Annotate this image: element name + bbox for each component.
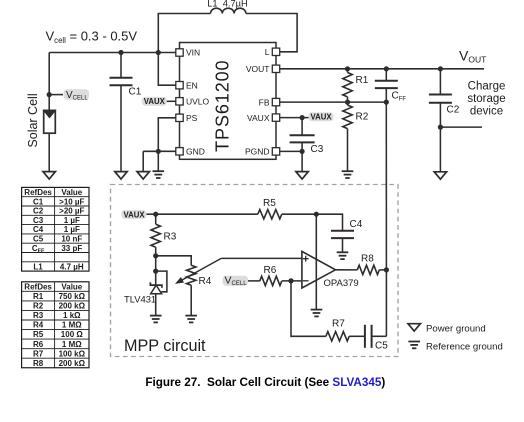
node EN tie junction: [156, 50, 161, 55]
capacitor C1: [110, 78, 133, 85]
legend Power ground text: [426, 324, 486, 335]
label R8: [361, 254, 374, 265]
wire TLV431 top: [155, 256, 157, 285]
svg-text:C1: C1: [33, 197, 44, 206]
MPP circuit dashed box: [111, 185, 399, 357]
svg-text:VAUX: VAUX: [310, 113, 332, 122]
label CFF: [392, 91, 407, 103]
label C5: [375, 341, 388, 352]
node PS-GND junction: [156, 149, 161, 154]
legend Reference ground text: [426, 342, 503, 353]
solar cell SC1 symbol: [44, 110, 56, 133]
svg-text:R1: R1: [33, 292, 44, 301]
svg-text:device: device: [470, 105, 503, 117]
svg-text:R6: R6: [264, 265, 277, 276]
label VAUX flag (pin): [309, 112, 334, 121]
TLV431 ref loop: [156, 271, 167, 292]
label Charge storage device: [467, 80, 505, 117]
svg-text:33 pF: 33 pF: [61, 244, 82, 253]
reference ground (C4): [337, 252, 349, 259]
capacitor C3: [290, 135, 315, 142]
wire CFF bottom stub: [385, 88, 387, 102]
wire VOUT rail: [280, 68, 484, 70]
svg-text:1 MΩ: 1 MΩ: [62, 321, 82, 330]
svg-text:L1 4.7µH: L1 4.7µH: [207, 0, 248, 8]
node C2 top: [438, 66, 443, 71]
wire R4 top: [156, 256, 192, 265]
resistor R6: [260, 276, 282, 285]
wire C2 bottom stub: [439, 103, 441, 127]
capacitor C5: [365, 325, 372, 348]
wire FB rail: [280, 101, 387, 103]
resistor R5: [258, 210, 282, 219]
R4 wiper arrow: [176, 258, 221, 283]
wire C1 top: [120, 53, 122, 78]
svg-text:VAUX: VAUX: [123, 210, 145, 219]
pin FB box: [272, 98, 279, 105]
pin VIN label: [186, 48, 200, 58]
label R4: [199, 276, 212, 287]
wire C3 bottom stub: [301, 142, 303, 151]
reference ground (op-amp): [311, 310, 323, 317]
pin GND box: [176, 148, 183, 155]
svg-text:R2: R2: [33, 302, 44, 311]
pin VOUT label: [246, 64, 270, 74]
node VAUX junction: [300, 115, 305, 120]
svg-text:R2: R2: [356, 112, 369, 123]
svg-text:FB: FB: [259, 97, 270, 107]
wire C2 gnd stub: [439, 127, 441, 172]
label L1 value: [207, 0, 248, 8]
svg-text:C1: C1: [129, 87, 142, 98]
inductor L1: [211, 8, 246, 13]
pin PGND label: [245, 147, 270, 157]
svg-text:R5: R5: [33, 330, 44, 339]
label C4: [350, 219, 363, 230]
svg-text:TPS61200: TPS61200: [213, 60, 233, 152]
wire ref gnd stub (GND): [157, 151, 159, 171]
svg-text:EN: EN: [186, 80, 198, 90]
svg-text:RefDes: RefDes: [24, 188, 52, 197]
svg-text:RefDes: RefDes: [24, 282, 52, 291]
wire VAUX flag to UVLO: [167, 100, 176, 102]
wire R8 right: [379, 269, 386, 271]
label R6: [264, 265, 277, 276]
node C3-PGND junction: [300, 149, 305, 154]
wire R4 bottom: [190, 285, 192, 315]
svg-text:MPP circuit: MPP circuit: [124, 337, 206, 355]
capacitor C4: [331, 231, 354, 238]
pin L box: [272, 48, 279, 55]
pin PS box: [176, 114, 183, 121]
wire C1 bottom: [120, 85, 122, 171]
svg-text:R4: R4: [199, 276, 212, 287]
svg-text:R3: R3: [33, 311, 44, 320]
label C1: [129, 87, 142, 98]
svg-text:C5: C5: [33, 234, 44, 243]
wire L1 loop: [158, 14, 210, 53]
svg-text:Reference ground: Reference ground: [426, 342, 503, 353]
node TLV431 ref junction: [153, 269, 158, 274]
svg-text:1 MΩ: 1 MΩ: [62, 340, 82, 349]
wire opamp supply through body: [315, 214, 317, 309]
label R1: [356, 75, 369, 86]
label Solar Cell: [26, 93, 40, 147]
node R1 top: [345, 66, 350, 71]
pin EN box: [176, 82, 183, 89]
svg-text:L: L: [265, 47, 270, 57]
svg-text:200 kΩ: 200 kΩ: [59, 302, 86, 311]
wire wiper to plus input: [221, 257, 302, 259]
svg-text:PGND: PGND: [245, 147, 270, 157]
svg-text:VAUX: VAUX: [144, 97, 166, 106]
svg-text:Power ground: Power ground: [426, 324, 486, 335]
svg-text:PS: PS: [186, 113, 198, 123]
svg-text:C2: C2: [33, 207, 44, 216]
node CFF top: [384, 66, 389, 71]
svg-text:GND: GND: [186, 147, 205, 157]
wire R3 top stub: [155, 214, 157, 224]
label VCELL flag (MPP): [223, 274, 249, 287]
node R3 top junction: [153, 212, 158, 217]
label R3: [164, 232, 177, 243]
pin FB label: [259, 97, 270, 107]
svg-text:C3: C3: [33, 216, 44, 225]
pin UVLO label: [186, 97, 210, 107]
power ground (C2): [434, 172, 446, 179]
wire R1 top stub: [347, 69, 349, 73]
reference ground (GND): [153, 171, 165, 178]
legend power ground symbol: [408, 324, 420, 331]
svg-text:R7: R7: [332, 319, 345, 330]
wire EN tie: [158, 53, 176, 86]
svg-text:Value: Value: [61, 188, 82, 197]
label VCELL flag (solar cell): [64, 89, 90, 101]
label R5: [263, 198, 276, 209]
svg-text:Figure 27. Solar Cell Circuit: Figure 27. Solar Cell Circuit (See SLVA3…: [145, 376, 385, 389]
wire VIN rail: [49, 52, 176, 54]
wire R1 bottom stub: [347, 97, 349, 102]
pin VAUX label: [247, 113, 270, 123]
label C3: [311, 144, 324, 155]
label VAUX flag (UVLO): [142, 97, 167, 106]
svg-text:4.7 µH: 4.7 µH: [60, 262, 84, 271]
pin GND label: [186, 147, 205, 157]
label OPA379: [324, 278, 359, 289]
svg-text:1 kΩ: 1 kΩ: [63, 311, 81, 320]
wire FB to MPP output: [385, 102, 387, 270]
wire output node down: [385, 270, 387, 336]
wire R2 bottom: [347, 129, 349, 171]
label VOUT: [459, 47, 486, 64]
label Vcell = 0.3 - 0.5V: [46, 29, 138, 45]
wire solar cell top: [48, 53, 50, 111]
svg-text:L1: L1: [33, 262, 43, 271]
svg-text:R5: R5: [263, 198, 276, 209]
label C2: [447, 105, 460, 116]
node C1 top junction: [118, 50, 123, 55]
wire opamp out: [336, 269, 358, 271]
svg-text:10 nF: 10 nF: [61, 234, 82, 243]
wire TLV431 bottom: [155, 294, 157, 316]
power ground (C1): [115, 172, 127, 179]
wire VAUX flag to R3: [147, 213, 156, 215]
node R3-R4-TLV junction: [153, 253, 158, 258]
op-amp plus sign: [303, 256, 309, 262]
svg-text:C5: C5: [375, 341, 388, 352]
svg-text:C2: C2: [447, 105, 460, 116]
resistor R7: [326, 332, 349, 341]
pin EN label: [186, 80, 198, 90]
wire GND down: [142, 151, 144, 171]
reference ground (R2): [342, 171, 354, 178]
caption Figure 27: [145, 376, 385, 389]
resistor R8: [357, 265, 379, 274]
wire PS tie: [158, 118, 176, 152]
power ground (PGND): [296, 172, 308, 179]
node R5-C4 junction: [314, 212, 319, 217]
svg-text:C3: C3: [311, 144, 324, 155]
wire L1 to pin L: [246, 14, 297, 52]
svg-text:R6: R6: [33, 340, 44, 349]
power ground (solar cell): [43, 172, 55, 179]
reference ground (R4): [185, 316, 197, 323]
wire GND rail: [143, 150, 176, 152]
pin UVLO box: [176, 98, 183, 105]
pin VIN box: [176, 49, 183, 56]
label MPP circuit: [124, 337, 206, 355]
svg-text:VAUX: VAUX: [247, 113, 270, 123]
wire Vcell tap stub: [49, 94, 63, 96]
label R2: [356, 112, 369, 123]
wire C4 bottom: [342, 238, 344, 252]
node R1-R2-FB junction: [345, 100, 350, 105]
svg-text:R8: R8: [361, 254, 374, 265]
TLV431 D1 symbol: [150, 282, 162, 293]
wire R2 top stub: [347, 102, 349, 105]
op-amp minus sign: [303, 280, 309, 282]
svg-text:VOUT: VOUT: [246, 64, 270, 74]
svg-text:1 µF: 1 µF: [64, 225, 80, 234]
capacitor CFF: [375, 81, 398, 88]
node C2 bottom junction: [438, 125, 443, 130]
svg-text:R3: R3: [164, 232, 177, 243]
svg-text:R1: R1: [356, 75, 369, 86]
capacitor C2: [429, 95, 452, 103]
resistor R3: [151, 224, 160, 247]
pin L label: [265, 47, 270, 57]
wire R3 bottom stub: [155, 247, 157, 256]
pin PGND box: [272, 148, 279, 155]
svg-text:1 µF: 1 µF: [64, 216, 80, 225]
svg-text:VIN: VIN: [186, 48, 200, 58]
node minus input junction: [288, 278, 293, 283]
svg-text:>10 µF: >10 µF: [59, 197, 84, 206]
resistor R4: [187, 265, 196, 285]
svg-text:C4: C4: [350, 219, 363, 230]
label R7: [332, 319, 345, 330]
label VAUX flag (MPP): [122, 210, 147, 219]
wire C4 branch: [316, 214, 342, 231]
svg-text:100 kΩ: 100 kΩ: [59, 349, 86, 358]
svg-text:Charge: Charge: [468, 80, 506, 92]
svg-text:100 Ω: 100 Ω: [61, 330, 84, 339]
wire C3 top stub: [301, 118, 303, 136]
wire R5 right: [282, 213, 317, 215]
wire VCELL to R6: [248, 280, 260, 282]
wire PGND rail: [280, 150, 302, 152]
svg-text:R4: R4: [33, 321, 44, 330]
node CFF-FB junction: [384, 100, 389, 105]
svg-text:>20 µF: >20 µF: [59, 207, 84, 216]
resistor R1: [343, 73, 352, 97]
wire charge device bottom: [440, 126, 482, 128]
pin VOUT box: [272, 65, 279, 72]
svg-text:Solar Cell: Solar Cell: [26, 93, 40, 147]
node Vcell tap: [47, 92, 52, 97]
svg-text:TLV431: TLV431: [124, 294, 156, 305]
wire R5 left: [156, 213, 258, 215]
wire CFF top stub: [385, 69, 387, 81]
wire solar cell bottom: [48, 133, 50, 171]
wire minus to R7: [291, 281, 326, 336]
wire C2 top stub: [439, 69, 441, 95]
svg-text:750 kΩ: 750 kΩ: [59, 292, 86, 301]
IC U1 TPS61200 body: [180, 43, 277, 160]
svg-text:R8: R8: [33, 359, 44, 368]
pin PS label: [186, 113, 198, 123]
op-amp U2 OPA379 triangle: [302, 251, 336, 288]
pin VAUX box: [272, 114, 279, 121]
svg-text:R7: R7: [33, 349, 44, 358]
svg-text:C4: C4: [33, 225, 44, 234]
wire R6 right: [282, 280, 302, 282]
label TLV431: [124, 294, 156, 305]
legend reference ground symbol: [408, 342, 420, 349]
wire PGND gnd stub: [301, 151, 303, 171]
wire R7 to C5: [349, 335, 365, 337]
svg-text:UVLO: UVLO: [186, 97, 210, 107]
power ground (GND): [137, 172, 149, 179]
svg-text:Value: Value: [61, 282, 82, 291]
node R8-FB junction: [384, 267, 389, 272]
svg-text:OPA379: OPA379: [324, 278, 359, 289]
wire C5 to output node: [372, 335, 387, 337]
wire VAUX stub: [280, 117, 309, 119]
resistor R2: [343, 105, 352, 128]
table resistor values: [22, 282, 89, 368]
reference ground (TLV431): [150, 316, 162, 323]
IC U1 label TPS61200: [213, 60, 233, 152]
table capacitor/inductor values: [22, 187, 89, 271]
svg-text:storage: storage: [467, 93, 505, 105]
svg-text:200 kΩ: 200 kΩ: [59, 359, 86, 368]
